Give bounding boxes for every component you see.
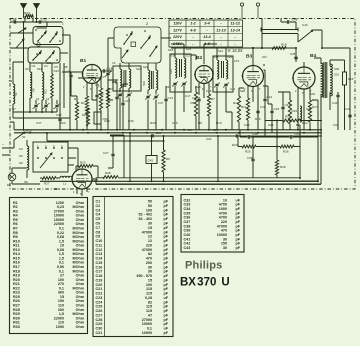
wire — [101, 70, 112, 72]
wire — [69, 35, 71, 118]
switch lever S2 — [38, 32, 46, 41]
switch shaft — [37, 43, 41, 47]
trimmer capacitor C22 — [224, 84, 227, 85]
selector lever — [40, 153, 52, 168]
grid line B3 — [191, 55, 196, 60]
wire — [281, 19, 296, 31]
svg-text:C20: C20 — [96, 283, 103, 287]
svg-text:pF: pF — [163, 265, 168, 269]
svg-text:S9: S9 — [25, 67, 29, 71]
svg-text:pF: pF — [163, 278, 168, 282]
capacitor C35 — [58, 119, 61, 120]
svg-text:R11: R11 — [241, 105, 247, 109]
choke L1 — [60, 176, 72, 178]
svg-text:C27: C27 — [103, 151, 109, 155]
svg-text:C37: C37 — [36, 121, 42, 125]
svg-text:10000: 10000 — [142, 322, 152, 326]
svg-text:C21: C21 — [96, 287, 103, 291]
svg-text:13-14: 13-14 — [230, 28, 241, 32]
capacitor C49 — [248, 135, 249, 138]
wire — [217, 48, 226, 130]
svg-text:1M: 1M — [19, 147, 23, 151]
svg-text:S33: S33 — [310, 92, 315, 96]
svg-text:15: 15 — [148, 278, 152, 282]
svg-text:10000: 10000 — [217, 233, 227, 237]
svg-text:B2: B2 — [196, 55, 202, 61]
wire — [261, 34, 263, 48]
svg-text:C35: C35 — [56, 113, 62, 117]
svg-text:pF: pF — [163, 300, 168, 304]
svg-text:C36: C36 — [184, 216, 191, 220]
resistor R28 — [103, 176, 118, 179]
svg-text:C26: C26 — [268, 123, 274, 127]
trimmer capacitor C45t — [146, 96, 149, 97]
wire — [313, 30, 350, 48]
svg-text:pF: pF — [163, 213, 168, 217]
svg-text:R5: R5 — [166, 157, 170, 161]
wire bus to coils — [13, 112, 70, 118]
switch S1 lever — [14, 132, 25, 140]
svg-text:C4: C4 — [100, 75, 104, 79]
svg-text:1000: 1000 — [56, 325, 64, 329]
wire — [76, 166, 98, 178]
resistor R24 — [86, 108, 89, 126]
svg-text:C29: C29 — [96, 322, 103, 326]
svg-text:pF: pF — [163, 261, 168, 265]
svg-text:S27: S27 — [262, 55, 267, 59]
wire — [276, 175, 278, 178]
svg-text:R28: R28 — [105, 171, 111, 175]
svg-text:3M: 3M — [19, 161, 23, 165]
svg-text:S18: S18 — [168, 48, 174, 52]
lever outside — [16, 39, 24, 48]
svg-text:B3: B3 — [246, 54, 252, 60]
svg-text:470: 470 — [146, 257, 152, 261]
svg-text:C31: C31 — [96, 331, 103, 335]
svg-text:R18: R18 — [281, 43, 287, 47]
svg-text:C38: C38 — [290, 52, 296, 56]
svg-text:C48: C48 — [292, 18, 298, 22]
junction — [36, 21, 38, 23]
wire — [37, 27, 48, 29]
svg-text:S16: S16 — [211, 71, 215, 76]
capacitor C48 — [287, 20, 288, 23]
resistor R19 — [343, 72, 347, 85]
IF transformer II box — [213, 56, 233, 92]
svg-text:C8: C8 — [67, 70, 71, 74]
junction — [151, 135, 153, 137]
switch contact dots — [123, 43, 125, 45]
svg-text:R17: R17 — [312, 105, 318, 109]
tube B2 — [195, 66, 213, 84]
core lines — [180, 59, 182, 77]
coil S44 — [156, 70, 158, 90]
resistor S13 — [51, 74, 54, 98]
svg-text:pF: pF — [163, 200, 168, 204]
bus wire 1 — [14, 129, 322, 131]
wire — [204, 47, 253, 49]
tube B5 pins — [77, 187, 87, 196]
svg-text:C40: C40 — [184, 233, 191, 237]
svg-text:C14: C14 — [96, 257, 104, 261]
capacitor value table C32-C43 — [181, 195, 244, 253]
svg-text:S2: S2 — [14, 92, 18, 96]
resistor R27 — [42, 177, 56, 180]
capacitor C24 — [263, 99, 266, 100]
svg-text:R24: R24 — [82, 113, 88, 117]
wire — [10, 122, 14, 130]
svg-text:100: 100 — [146, 283, 152, 287]
svg-text:115: 115 — [146, 309, 152, 313]
resistor R21 — [283, 119, 300, 122]
svg-text:S9: S9 — [32, 88, 36, 92]
frame antenna third — [299, 125, 301, 178]
wire — [87, 93, 97, 130]
capacitor C13 — [164, 99, 167, 100]
svg-text:C23: C23 — [213, 128, 219, 132]
wire — [108, 38, 171, 70]
svg-text:C1: C1 — [96, 200, 101, 204]
wire — [261, 19, 298, 43]
capacitor C42 — [348, 115, 351, 116]
svg-text:S16: S16 — [214, 55, 219, 59]
svg-text:C43: C43 — [184, 246, 191, 250]
svg-text:S24: S24 — [186, 47, 192, 51]
svg-text:10000: 10000 — [142, 331, 152, 335]
wire — [26, 140, 28, 178]
trimmer capacitor C41 — [127, 94, 130, 95]
resistor R13 — [237, 96, 240, 122]
wire — [203, 48, 205, 64]
left vert wires — [60, 63, 64, 112]
svg-text:R14: R14 — [302, 121, 308, 125]
svg-text:S6: S6 — [24, 180, 28, 184]
svg-text:S31: S31 — [334, 73, 340, 77]
svg-text:R25: R25 — [245, 150, 251, 154]
svg-text:C15: C15 — [96, 261, 103, 265]
svg-text:52 - 402: 52 - 402 — [138, 217, 152, 221]
svg-text:12: 12 — [148, 235, 152, 239]
svg-text:50: 50 — [148, 200, 152, 204]
svg-text:30: 30 — [148, 270, 152, 274]
wire — [120, 63, 129, 130]
tube B4 pins — [298, 87, 310, 104]
svg-text:C38: C38 — [247, 156, 253, 160]
wire — [29, 63, 31, 112]
wire — [148, 63, 156, 130]
mains lead — [2, 148, 14, 155]
svg-text:C46: C46 — [302, 23, 308, 27]
svg-text:C21: C21 — [230, 87, 236, 91]
capacitor C20 — [197, 99, 200, 100]
svg-text:200: 200 — [146, 261, 152, 265]
junction — [252, 47, 254, 49]
svg-text:C11: C11 — [96, 243, 103, 247]
wire — [314, 58, 338, 130]
svg-text:pF: pF — [163, 235, 168, 239]
svg-text:R30: R30 — [150, 121, 156, 125]
svg-text:R2: R2 — [81, 101, 85, 105]
svg-text:pF: pF — [163, 239, 168, 243]
wire — [69, 118, 71, 130]
trimmer capacitor C3 — [44, 105, 47, 106]
antenna 2 — [34, 4, 40, 9]
svg-text:R15: R15 — [292, 109, 298, 113]
svg-text:pF: pF — [235, 203, 240, 207]
svg-text:C25: C25 — [96, 305, 103, 309]
svg-text:L1: L1 — [63, 182, 67, 186]
resistor R1v — [75, 102, 78, 120]
coil S30 — [321, 63, 323, 97]
wire — [46, 22, 48, 27]
svg-text:R10: R10 — [216, 121, 222, 125]
wire — [41, 63, 43, 112]
chassis dashed border — [10, 19, 355, 190]
svg-text:S42: S42 — [136, 67, 141, 71]
svg-text:C44: C44 — [295, 132, 301, 136]
electrolytic C52 — [94, 112, 101, 124]
svg-text:pF: pF — [163, 283, 168, 287]
wire — [78, 78, 128, 84]
trimmer capacitor C17 — [173, 83, 176, 84]
svg-text:R22: R22 — [60, 121, 66, 125]
resistor R25 — [242, 145, 256, 148]
svg-text:R23: R23 — [232, 143, 238, 147]
switch lever S7 — [46, 52, 54, 61]
svg-text:R33: R33 — [24, 12, 30, 16]
wire — [338, 60, 345, 102]
capacitor C9 — [115, 97, 118, 98]
bus wire 3 — [110, 135, 322, 137]
resistor R2 — [85, 96, 88, 114]
svg-text:3-4: 3-4 — [204, 22, 210, 26]
wire — [303, 62, 305, 67]
svg-text:R13: R13 — [233, 101, 239, 105]
resistor R5 — [162, 150, 165, 172]
capacitor C44 — [290, 135, 291, 138]
wire — [217, 136, 219, 181]
svg-text:S8: S8 — [64, 65, 68, 69]
wire — [252, 48, 254, 65]
svg-text:pF: pF — [163, 322, 168, 326]
svg-text:C6: C6 — [96, 222, 101, 226]
svg-text:15: 15 — [148, 226, 152, 230]
svg-text:R7: R7 — [211, 97, 215, 101]
wire — [163, 136, 165, 181]
capacitor C29 — [152, 134, 153, 137]
svg-text:R27: R27 — [44, 182, 50, 186]
wire — [13, 33, 24, 62]
wire — [338, 92, 345, 130]
svg-text:C34: C34 — [11, 18, 17, 22]
svg-text:C26: C26 — [96, 309, 103, 313]
svg-text:C7: C7 — [12, 107, 16, 111]
trimmer capacitor C2 — [34, 105, 37, 106]
capacitor C38 grid — [294, 57, 297, 58]
svg-text:pF: pF — [163, 204, 168, 208]
wire — [271, 104, 273, 133]
svg-text:115: 115 — [146, 305, 152, 309]
svg-text:4700: 4700 — [219, 216, 227, 220]
svg-text:R26: R26 — [283, 150, 289, 154]
svg-text:2M: 2M — [19, 154, 23, 158]
svg-text:C15: C15 — [234, 59, 240, 63]
svg-text:0,1: 0,1 — [147, 327, 152, 331]
svg-text:R8: R8 — [198, 121, 202, 125]
trimmer capacitor C7 — [55, 105, 58, 106]
svg-text:52 - 402: 52 - 402 — [138, 213, 152, 217]
svg-text:C17: C17 — [185, 94, 191, 98]
wire — [175, 48, 184, 130]
resistor R33 — [25, 15, 33, 18]
svg-text:1-2: 1-2 — [190, 22, 196, 26]
svg-text:R6: R6 — [188, 128, 192, 132]
core lines — [124, 70, 126, 87]
svg-text:C6: C6 — [32, 64, 36, 68]
mains voltage tap table — [169, 20, 243, 47]
svg-text:C5: C5 — [96, 217, 101, 221]
svg-text:S12: S12 — [47, 61, 52, 65]
svg-text:pF: pF — [163, 243, 168, 247]
bottom bus wire 2 — [96, 183, 321, 185]
svg-text:C19: C19 — [96, 278, 103, 282]
svg-text:C28: C28 — [274, 107, 280, 111]
svg-text:pF: pF — [163, 292, 168, 296]
svg-text:11-13: 11-13 — [216, 28, 226, 32]
wire — [265, 120, 322, 122]
wire — [59, 112, 61, 130]
wire — [298, 96, 310, 130]
wire — [71, 84, 77, 130]
wire — [51, 63, 53, 112]
switch lever — [141, 37, 150, 48]
svg-text:S30: S30 — [334, 67, 340, 71]
wire — [151, 136, 153, 181]
wire — [204, 44, 217, 48]
svg-text:C7: C7 — [96, 226, 101, 230]
wire — [238, 137, 300, 147]
IF transformer I box — [170, 54, 191, 92]
lever outside 2 — [18, 28, 26, 33]
oscillator coil box — [113, 66, 141, 91]
switch lever S3 — [50, 33, 57, 42]
svg-text:C10: C10 — [41, 18, 47, 22]
svg-text:C20: C20 — [192, 96, 198, 100]
coil S31 — [330, 64, 332, 96]
svg-text:220: 220 — [146, 243, 152, 247]
svg-text:S41: S41 — [114, 79, 118, 84]
svg-text:S13: S13 — [54, 69, 60, 73]
svg-text:C2: C2 — [36, 97, 40, 101]
svg-text:pF: pF — [163, 226, 168, 230]
svg-text:115: 115 — [146, 287, 152, 291]
scale lamp EL — [8, 173, 16, 181]
wire — [226, 112, 232, 130]
tube B4 — [293, 67, 315, 89]
resistor R18v — [275, 160, 278, 175]
switch lever — [122, 50, 128, 58]
capacitor C25 — [236, 134, 237, 137]
svg-text:pF: pF — [163, 270, 168, 274]
tube B1 — [83, 65, 102, 84]
capacitor C30s — [256, 111, 259, 112]
svg-text:pF: pF — [235, 233, 240, 237]
wire — [252, 137, 254, 178]
tube B5 — [72, 169, 92, 189]
coil S16 — [217, 60, 219, 79]
svg-text:C33: C33 — [184, 203, 191, 207]
svg-text:S5: S5 — [9, 79, 13, 83]
svg-text:C30: C30 — [96, 327, 103, 331]
capacitor C11 — [95, 95, 98, 96]
svg-text:11-12: 11-12 — [231, 22, 241, 26]
svg-text:C16: C16 — [96, 265, 103, 269]
wire — [296, 100, 318, 125]
svg-text:110V: 110V — [173, 22, 182, 26]
coil S15 — [184, 58, 186, 78]
svg-text:C51: C51 — [54, 187, 60, 191]
wire — [108, 136, 113, 168]
wire — [108, 70, 113, 100]
trimmer capacitor C14 — [118, 94, 121, 95]
junction — [151, 180, 153, 182]
electrolytic C45 — [146, 156, 157, 164]
svg-text:C24: C24 — [96, 300, 104, 304]
bottom bus wire — [40, 180, 318, 182]
junction — [29, 111, 31, 113]
svg-text:R18: R18 — [280, 165, 286, 169]
svg-text:R1: R1 — [74, 97, 78, 101]
svg-text:C43: C43 — [332, 101, 338, 105]
resistor R3 — [99, 88, 102, 110]
top distribution line — [171, 44, 184, 48]
svg-text:1: 1 — [62, 22, 64, 26]
svg-text:C24: C24 — [267, 95, 273, 99]
wire — [76, 148, 78, 170]
wire — [12, 62, 14, 118]
wire — [40, 177, 73, 179]
junction — [276, 120, 278, 122]
tube B2 pins — [199, 83, 209, 98]
svg-text:C13: C13 — [168, 96, 174, 100]
svg-text:S15: S15 — [185, 54, 190, 58]
capacitor C8g — [69, 75, 72, 76]
switch lever S4 — [33, 52, 41, 60]
svg-text:13-4: 13-4 — [203, 35, 211, 39]
capacitor C10 — [39, 20, 40, 23]
resistor R18h — [272, 47, 286, 50]
junction — [23, 21, 25, 23]
svg-text:C22: C22 — [96, 292, 103, 296]
voltage selector box — [33, 142, 68, 172]
resistor R9 — [194, 92, 197, 116]
frame antenna inner — [96, 100, 321, 184]
wire — [36, 100, 57, 112]
svg-text:C25: C25 — [172, 121, 178, 125]
right edge wire — [330, 48, 350, 130]
svg-text:S1: S1 — [22, 135, 26, 139]
tube B3 — [243, 66, 264, 87]
heater line — [47, 133, 164, 150]
wire — [10, 33, 70, 53]
tuning capacitor C18 — [106, 73, 109, 74]
switch shaft 2 — [131, 42, 136, 47]
wire grid B1 — [62, 71, 83, 73]
capacitor value table C1-C31 — [93, 197, 173, 337]
svg-text:C3: C3 — [46, 97, 50, 101]
gramophone terminal 2 — [256, 3, 259, 6]
svg-text:pF: pF — [235, 216, 240, 220]
